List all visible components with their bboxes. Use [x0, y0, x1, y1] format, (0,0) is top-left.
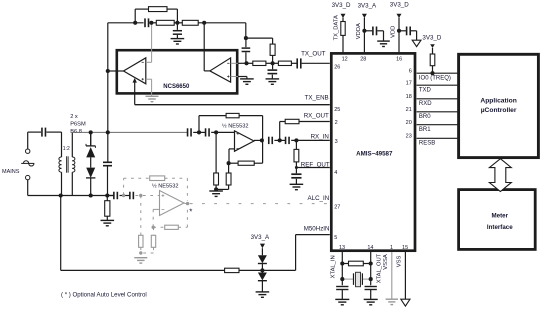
svg-text:TXD: TXD: [419, 87, 432, 93]
svg-text:BR0: BR0: [419, 114, 431, 120]
svg-text:6: 6: [409, 68, 412, 74]
svg-text:VDD: VDD: [390, 26, 396, 38]
svg-text:3V3_A: 3V3_A: [358, 3, 377, 10]
svg-text:VDDA: VDDA: [356, 23, 362, 39]
svg-text:VSSA: VSSA: [383, 254, 389, 270]
svg-text:RX_OUT: RX_OUT: [304, 113, 329, 120]
svg-text:M50HzIN: M50HzIN: [304, 226, 330, 233]
svg-text:12: 12: [342, 57, 348, 63]
svg-text:26: 26: [334, 64, 340, 70]
svg-text:3V3_D: 3V3_D: [422, 34, 441, 41]
svg-text:16: 16: [396, 57, 402, 63]
svg-text:4: 4: [334, 170, 337, 176]
svg-text:REF_OUT: REF_OUT: [301, 162, 330, 169]
svg-text:23: 23: [406, 134, 412, 140]
svg-text:2: 2: [335, 120, 338, 126]
svg-text:17: 17: [406, 80, 412, 86]
svg-text:3V3_D: 3V3_D: [332, 2, 351, 9]
svg-text:MAINS: MAINS: [2, 169, 20, 175]
svg-text:½ NE5532: ½ NE5532: [222, 123, 248, 130]
svg-text:RESB: RESB: [419, 140, 435, 146]
svg-text:13: 13: [339, 245, 345, 251]
svg-text:µController: µController: [481, 107, 517, 114]
svg-text:14: 14: [367, 245, 373, 251]
svg-text:Interface: Interface: [487, 224, 513, 231]
svg-text:27: 27: [334, 205, 340, 211]
svg-text:BR1: BR1: [419, 127, 431, 133]
svg-text:21: 21: [406, 107, 412, 113]
svg-text:NCS6650: NCS6650: [163, 84, 190, 90]
svg-text:25: 25: [334, 107, 340, 113]
svg-text:AMIS−49587: AMIS−49587: [356, 151, 393, 158]
svg-text:2 x: 2 x: [70, 114, 78, 120]
svg-text:Application: Application: [480, 98, 516, 105]
svg-text:IO0 (TREQ): IO0 (TREQ): [419, 75, 451, 81]
svg-text:VSS: VSS: [396, 255, 402, 267]
svg-text:TX_DATA: TX_DATA: [334, 15, 340, 40]
svg-text:1: 1: [390, 245, 393, 251]
svg-text:TX_ENB: TX_ENB: [305, 94, 329, 101]
svg-text:3: 3: [335, 139, 338, 145]
svg-text:XTAL_OUT: XTAL_OUT: [377, 253, 383, 283]
svg-text:XTAL_IN: XTAL_IN: [331, 255, 337, 278]
svg-text:½ NE5532: ½ NE5532: [152, 182, 178, 189]
svg-text:3V3_D: 3V3_D: [390, 1, 409, 8]
svg-text:P6SM: P6SM: [70, 122, 86, 128]
svg-text:Meter: Meter: [492, 213, 509, 220]
svg-text:ALC_IN: ALC_IN: [308, 195, 330, 202]
svg-text:RXD: RXD: [419, 101, 432, 107]
svg-text:5: 5: [334, 235, 337, 241]
svg-text:15: 15: [402, 245, 408, 251]
svg-text:18: 18: [406, 94, 412, 100]
svg-text:RX_IN: RX_IN: [311, 133, 329, 140]
svg-text:28: 28: [360, 57, 366, 63]
svg-text:( * ) Optional Auto Level Cont: ( * ) Optional Auto Level Control: [61, 292, 147, 299]
svg-text:3V3_A: 3V3_A: [251, 234, 270, 241]
svg-text:TX_OUT: TX_OUT: [301, 51, 326, 58]
svg-text:20: 20: [406, 120, 412, 126]
svg-text:*: *: [189, 208, 192, 217]
svg-text:1:2: 1:2: [63, 146, 70, 152]
